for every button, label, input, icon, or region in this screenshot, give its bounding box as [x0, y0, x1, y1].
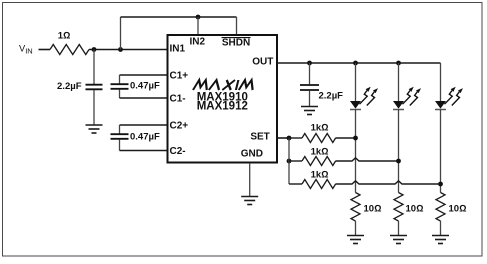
svg-text:0.47µF: 0.47µF [130, 132, 160, 143]
LED D3 column [435, 63, 463, 193]
resistor 10ohm R3 vertical [436, 193, 445, 222]
wire VIN lead [39, 49, 51, 51]
capacitor COUT 2.2uF [300, 63, 319, 107]
resistor 1kohm row3 [289, 180, 441, 189]
svg-text:10Ω: 10Ω [449, 204, 467, 215]
wire OUT rail [277, 62, 441, 64]
wire resistor to IN1 [89, 49, 167, 51]
svg-text:GND: GND [241, 149, 263, 160]
svg-text:C1+: C1+ [170, 71, 189, 82]
junction dot row2-col2 [396, 159, 401, 164]
MAXIM logo [193, 80, 255, 90]
resistor 1kohm row2 [289, 157, 399, 166]
junction dot out cap tap [307, 61, 312, 66]
ground R1 [347, 236, 364, 244]
wire SET pin stub [277, 137, 289, 139]
wire R1 to ground [355, 221, 357, 236]
svg-text:2.2µF: 2.2µF [57, 81, 82, 92]
junction dot SET bus row1 [287, 136, 292, 141]
ground IC [241, 197, 258, 205]
ground R2 [390, 236, 407, 244]
svg-text:MAX1912: MAX1912 [197, 101, 248, 113]
LED D2 column [393, 63, 421, 193]
junction dot row3-col3 [438, 182, 443, 187]
overline SHDN [222, 37, 251, 39]
resistor 10ohm R2 vertical [394, 193, 403, 222]
svg-text:1Ω: 1Ω [58, 31, 71, 42]
wire R3 to ground [440, 221, 442, 236]
svg-text:SHDN: SHDN [222, 38, 250, 49]
svg-text:C2+: C2+ [170, 121, 189, 132]
wire riser to top rail [120, 17, 122, 50]
svg-text:IN2: IN2 [190, 36, 206, 47]
junction dot LED col2 tap [396, 61, 401, 66]
wire top rail [121, 16, 237, 18]
wire SHDN drop [236, 17, 238, 35]
svg-text:0.47µF: 0.47µF [130, 81, 160, 92]
ground R3 [432, 236, 449, 244]
svg-text:10Ω: 10Ω [364, 204, 382, 215]
LED D1 column [350, 63, 378, 193]
capacitor C2 0.47uF [111, 125, 168, 151]
junction dot SET bus row2 [287, 159, 292, 164]
resistor 1kohm row1 [289, 134, 356, 143]
svg-text:OUT: OUT [252, 57, 273, 68]
svg-text:1kΩ: 1kΩ [311, 147, 329, 158]
resistor 10ohm R1 vertical [351, 193, 360, 222]
svg-text:2.2µF: 2.2µF [319, 91, 344, 102]
svg-text:IN1: IN1 [170, 44, 186, 55]
junction dot input cap tap [92, 47, 97, 52]
ground input cap [86, 125, 103, 133]
junction dot LED col1 tap [353, 61, 358, 66]
svg-text:C1-: C1- [170, 94, 186, 105]
op-amp U1 MAX1910 IC box [168, 35, 278, 163]
resistor 1ohm zigzag [50, 45, 89, 55]
ground output cap [301, 107, 318, 115]
junction dot row1-col1 [353, 136, 358, 141]
junction dot riser tap [118, 47, 123, 52]
wire SET bus vertical [288, 138, 290, 184]
capacitor C1 0.47uF [111, 75, 168, 98]
svg-text:1kΩ: 1kΩ [311, 123, 329, 134]
junction dot IN2 tap [196, 15, 201, 20]
svg-text:1kΩ: 1kΩ [311, 170, 329, 181]
wire R2 to ground [398, 221, 400, 236]
capacitor CIN 2.2uF [86, 50, 103, 126]
svg-text:10Ω: 10Ω [406, 204, 424, 215]
wire GND pin drop [249, 163, 251, 197]
wire IN2 drop [197, 17, 199, 35]
svg-text:SET: SET [250, 131, 269, 142]
svg-text:C2-: C2- [170, 146, 186, 157]
